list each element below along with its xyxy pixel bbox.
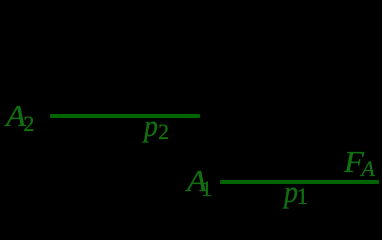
- lever arm p1 (lower green segment): [220, 180, 380, 184]
- subscript 1 of p1: [297, 196, 309, 198]
- length label p2: [144, 125, 158, 127]
- node label A1: [187, 180, 207, 182]
- subscript A of FA: [361, 168, 374, 170]
- subscript 1 of A1: [201, 188, 212, 190]
- subscript 2 of p2: [158, 131, 169, 133]
- lever arm p2 (upper green segment): [50, 114, 200, 118]
- subscript 2 of A2: [23, 123, 34, 125]
- node label A2: [6, 115, 26, 117]
- length label p1: [284, 191, 298, 193]
- force label F of FA: [344, 161, 364, 163]
